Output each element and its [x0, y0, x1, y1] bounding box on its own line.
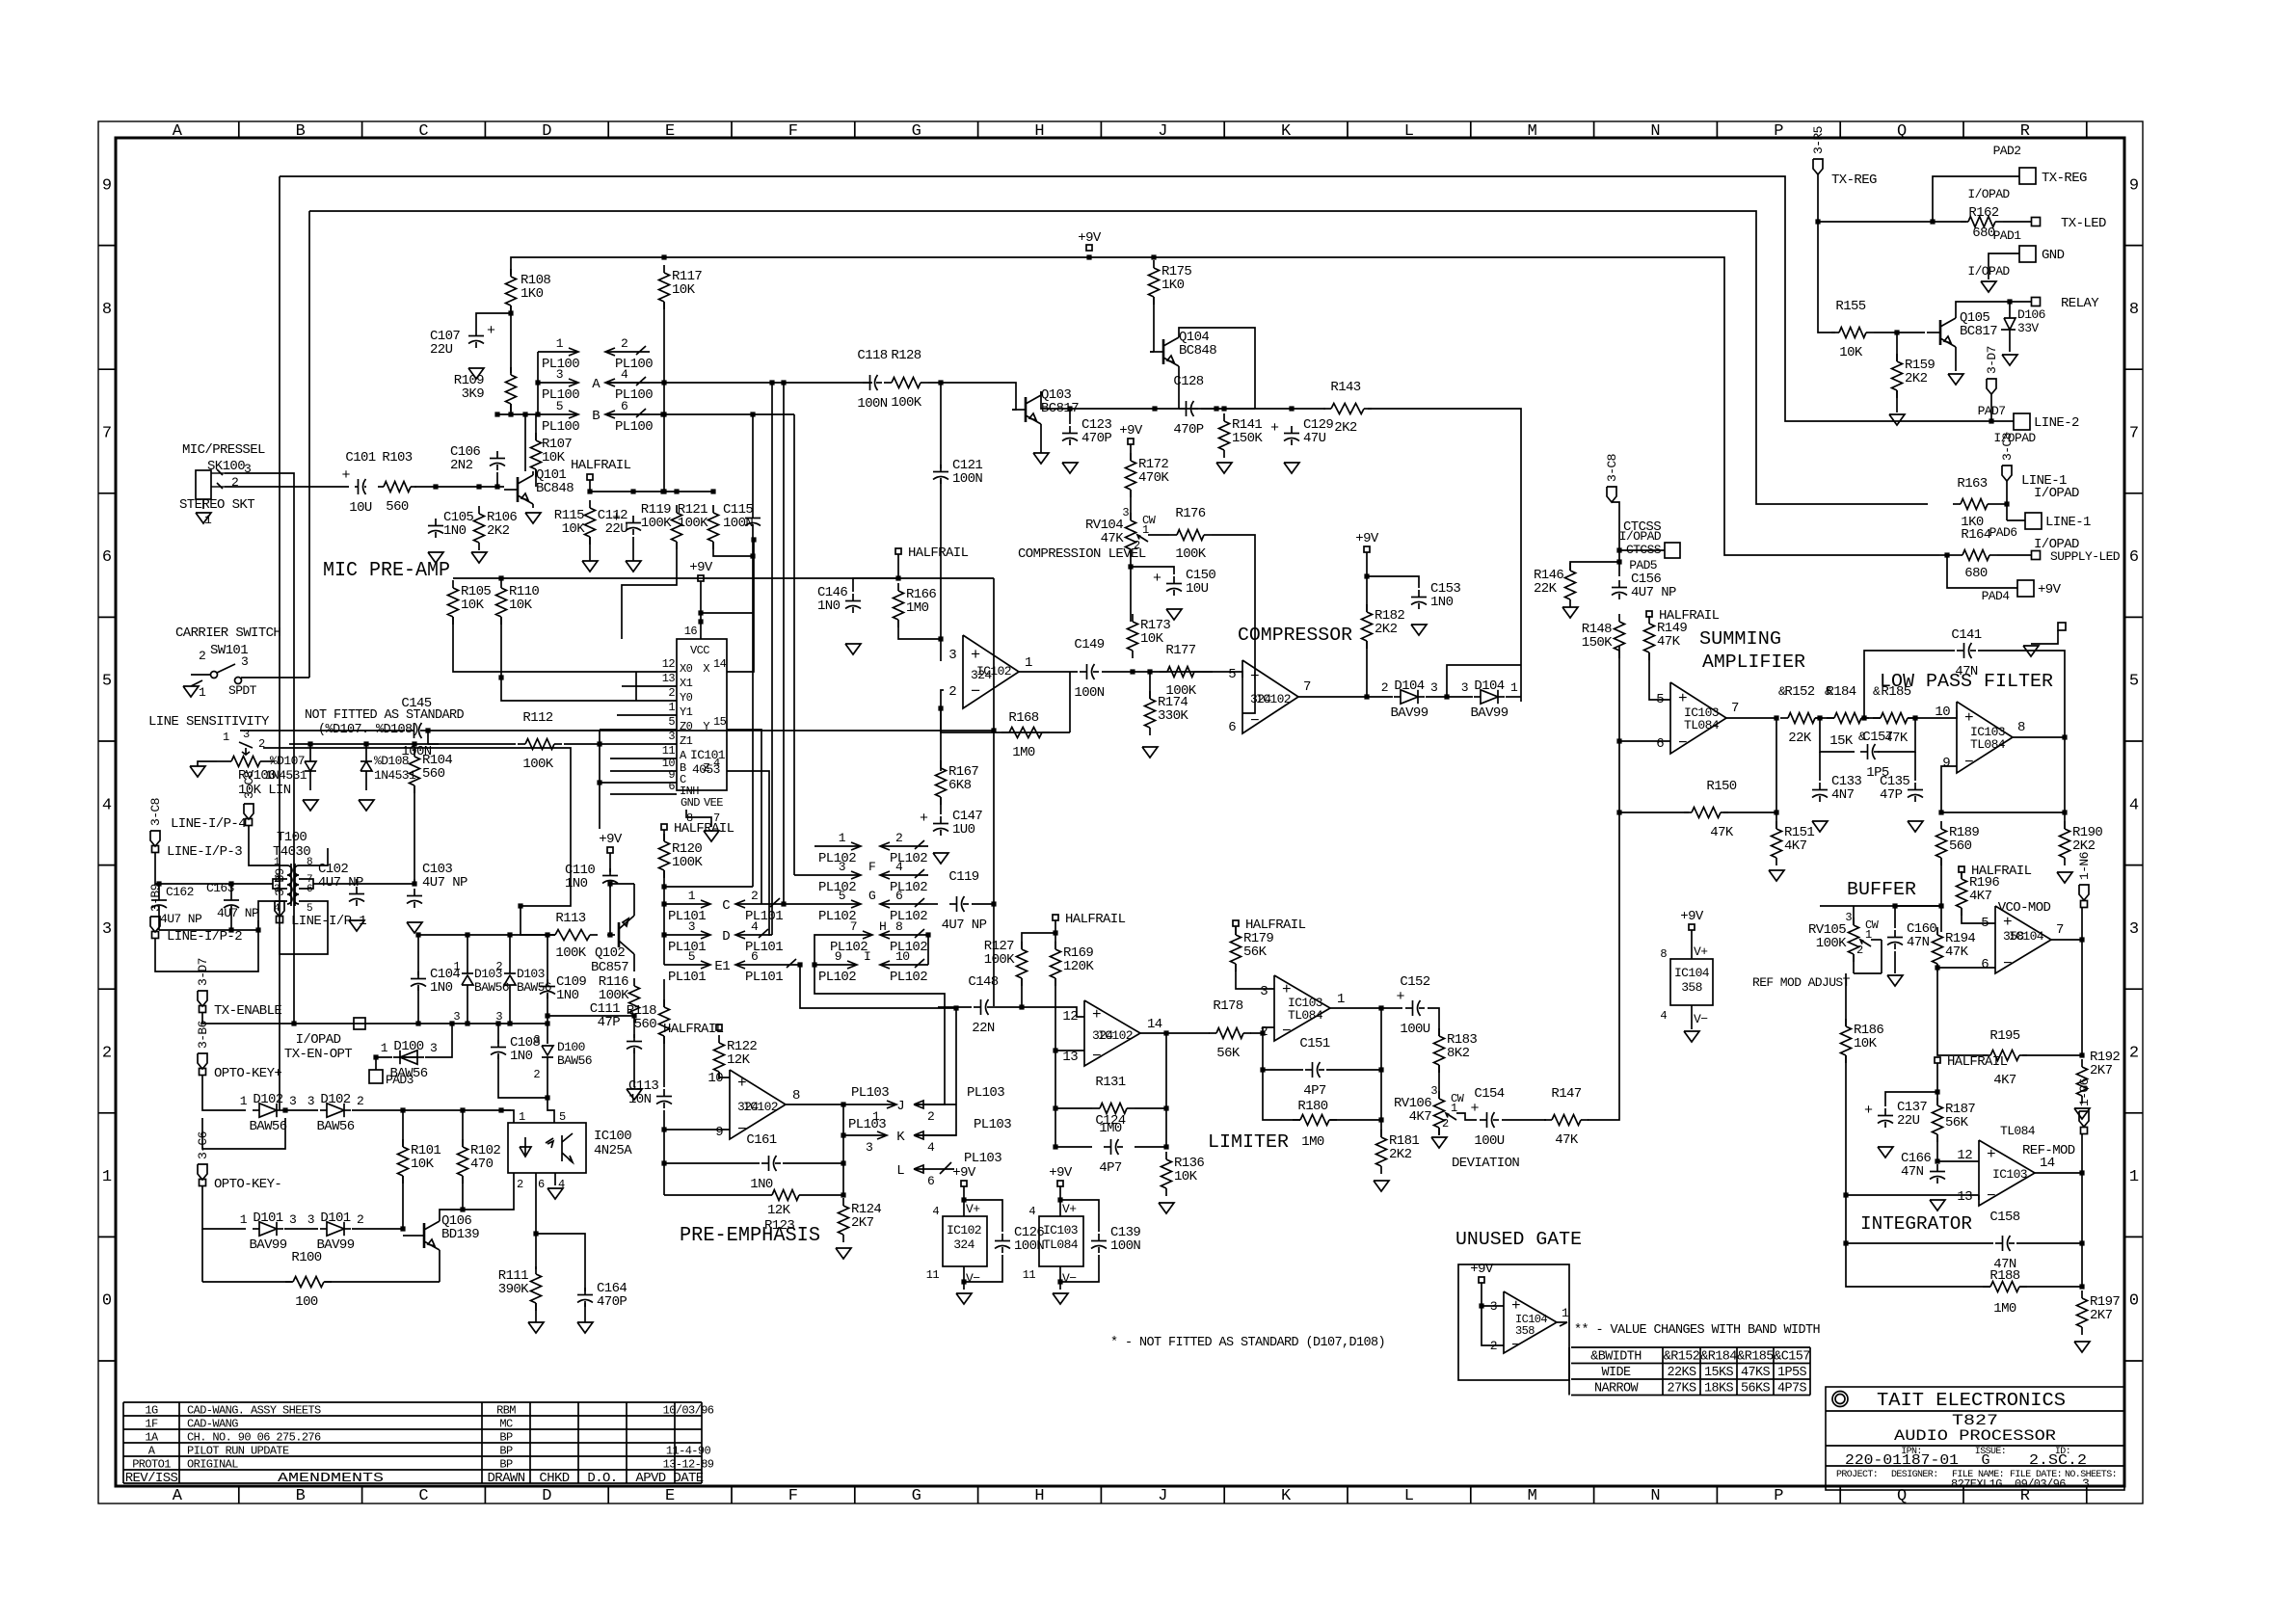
svg-text:VCO-MOD: VCO-MOD — [1998, 900, 2051, 916]
wire c148 left — [938, 1006, 972, 1008]
wire b to 9v jog — [698, 610, 753, 615]
wire r194 top — [1936, 932, 1938, 935]
wire K net — [914, 1008, 956, 1135]
svg-text:1G: 1G — [145, 1404, 158, 1418]
capacitor C121 — [933, 458, 982, 487]
svg-text:R113: R113 — [555, 911, 585, 926]
ground — [1411, 625, 1427, 635]
wire c157 right — [1878, 718, 1915, 752]
wire q105 collector — [1956, 302, 1957, 314]
label G — [868, 889, 875, 903]
svg-text:12: 12 — [1957, 1148, 1972, 1163]
transistor Q102 — [591, 884, 634, 975]
wire R102 top — [462, 1110, 464, 1147]
wire relay wire — [1957, 299, 2031, 304]
wire C110 v — [609, 853, 611, 872]
label REF MOD ADJUST — [1752, 975, 1851, 990]
wire R110 down — [498, 617, 636, 701]
svg-text:D103: D103 — [517, 967, 545, 981]
wire sum out — [1726, 715, 1779, 720]
svg-text:COMPRESSION LEVEL: COMPRESSION LEVEL — [1018, 546, 1146, 562]
resistor R168 — [1001, 710, 1050, 760]
wire C vertical x813 — [783, 383, 785, 904]
wire C107 top — [476, 313, 511, 329]
svg-text:1: 1 — [1562, 1306, 1569, 1320]
ground — [183, 686, 199, 697]
wire c135 top — [1914, 752, 1916, 781]
svg-text:TL084: TL084 — [2000, 1124, 2036, 1138]
svg-text:RBM: RBM — [496, 1404, 516, 1418]
svg-text:−: − — [1511, 1337, 1521, 1354]
resistor R197 — [2077, 1290, 2121, 1335]
wire R105 R110 top — [453, 575, 504, 580]
svg-text:6: 6 — [307, 884, 312, 895]
capacitor C123 — [1062, 417, 1111, 446]
wire c137 branch — [1885, 1092, 1937, 1106]
svg-text:2: 2 — [533, 1068, 540, 1081]
svg-text:470P: 470P — [597, 1294, 627, 1310]
net HALFRAIL q101 — [571, 458, 631, 480]
wire supply stub — [2031, 630, 2058, 644]
svg-text:4: 4 — [621, 367, 628, 382]
op-amp IC102 limiter-in — [1062, 1000, 1161, 1066]
capacitor C124 — [1095, 1113, 1125, 1176]
svg-text:47N: 47N — [1955, 664, 1978, 679]
ground — [577, 1322, 593, 1333]
svg-text:4: 4 — [895, 860, 903, 874]
svg-text:R128: R128 — [891, 348, 921, 363]
svg-text:R103: R103 — [382, 450, 412, 466]
wire r150 right — [1723, 810, 1779, 814]
wire comp1 fb — [938, 690, 1070, 732]
svg-text:7: 7 — [1731, 701, 1739, 716]
diode D102 — [240, 1092, 296, 1134]
svg-text:AMENDMENTS: AMENDMENTS — [278, 1471, 384, 1486]
svg-text:D106: D106 — [2017, 307, 2045, 322]
svg-text:D102: D102 — [253, 1092, 282, 1107]
label CARRIER SWITCH — [175, 625, 280, 641]
svg-text:HALFRAIL: HALFRAIL — [908, 545, 969, 561]
svg-text:47N: 47N — [1907, 935, 1930, 950]
svg-text:100K: 100K — [555, 945, 586, 961]
wire net carrier to LINE-1 — [309, 211, 1928, 504]
svg-text:PL102: PL102 — [818, 880, 856, 895]
connector PL103 pin2 J — [896, 1085, 1004, 1124]
resistor R123 — [664, 1190, 843, 1235]
svg-text:470P: 470P — [1173, 422, 1203, 438]
svg-text:G: G — [1981, 1452, 1989, 1469]
svg-text:56K: 56K — [1243, 945, 1268, 960]
svg-text:+: + — [487, 323, 495, 339]
svg-text:TL084: TL084 — [1684, 718, 1720, 732]
wire q103 emitter gnd — [1040, 428, 1042, 453]
svg-text:TL084: TL084 — [1288, 1008, 1323, 1023]
wire r195 right — [2022, 1054, 2082, 1056]
svg-text:390K: 390K — [498, 1282, 529, 1297]
pad TX-ENABLE — [200, 1003, 282, 1019]
svg-text:I: I — [864, 949, 870, 964]
wire c139 link — [1060, 1200, 1099, 1232]
svg-text:CHKD: CHKD — [539, 1471, 569, 1486]
connector PL102 pin 3 — [814, 860, 861, 895]
wire D vertical x801 — [771, 383, 773, 935]
diode D103b — [495, 935, 551, 1024]
svg-text:2: 2 — [668, 686, 675, 700]
svg-text:10K: 10K — [562, 521, 586, 537]
wire vco out — [2051, 908, 2085, 943]
connector PL103 pin4 K — [896, 1117, 1011, 1155]
svg-text:D102: D102 — [320, 1092, 350, 1107]
svg-text:150K: 150K — [1232, 431, 1263, 446]
svg-text:3: 3 — [307, 1212, 314, 1227]
wire lpf out v — [2064, 737, 2066, 829]
wire T100 right out — [313, 883, 414, 885]
svg-text:PL101: PL101 — [668, 940, 706, 955]
svg-text:1P5S: 1P5S — [1777, 1366, 1807, 1380]
ground — [547, 1188, 563, 1199]
svg-text:5: 5 — [1656, 692, 1664, 707]
svg-text:B: B — [592, 409, 600, 424]
svg-text:+9V: +9V — [599, 832, 623, 847]
svg-text:C161: C161 — [746, 1132, 776, 1148]
svg-text:G: G — [868, 889, 875, 903]
svg-text:1N0: 1N0 — [510, 1049, 533, 1064]
svg-text:&C157: &C157 — [1774, 1350, 1810, 1365]
svg-text:R152: R152 — [1784, 684, 1814, 700]
svg-text:3-D7: 3-D7 — [1985, 346, 1999, 374]
svg-text:P: P — [1774, 122, 1783, 141]
svg-text:0: 0 — [2129, 1292, 2139, 1311]
row number strip — [98, 176, 2143, 1361]
op-amp IC102 comp2 — [1228, 660, 1311, 735]
resistor R147 — [1544, 1086, 1589, 1148]
flag 3-C8 — [1605, 454, 1619, 502]
svg-text:2: 2 — [495, 960, 502, 973]
wire int in13b — [1978, 1195, 1980, 1200]
svg-text:PROJECT:: PROJECT: — [1836, 1470, 1878, 1480]
svg-text:−: − — [1964, 754, 1974, 771]
wire r176 right — [1212, 535, 1255, 713]
wire r186 top — [1845, 973, 1847, 1026]
svg-text:2: 2 — [751, 889, 758, 903]
wire lpf out — [1908, 710, 1957, 721]
svg-text:10K: 10K — [461, 598, 485, 613]
power +9V — [1355, 531, 1379, 552]
svg-text:PL102: PL102 — [890, 970, 927, 985]
wire IC101 pin left 3 — [636, 714, 677, 716]
ground — [1948, 374, 1963, 385]
label CTCSS — [1623, 519, 1661, 535]
svg-text:100K: 100K — [891, 395, 921, 411]
wire B rail — [605, 412, 794, 416]
pad PAD7 LINE-2 — [1978, 404, 2079, 445]
wire R182 bot — [1366, 641, 1368, 697]
capacitor C103 — [407, 862, 467, 908]
pad PAD2 TX-REG — [1967, 144, 2087, 201]
svg-text:5: 5 — [102, 673, 112, 691]
wire R105 down — [453, 617, 636, 672]
wire c160 top — [1892, 903, 1941, 928]
svg-text:PL100: PL100 — [615, 419, 653, 435]
svg-text:HALFRAIL: HALFRAIL — [1065, 912, 1126, 927]
wire r149 to pin5 — [1649, 652, 1670, 700]
svg-text:BC817: BC817 — [1960, 324, 1997, 339]
resistor R136 — [1161, 1152, 1205, 1196]
wire C110 bot — [607, 881, 612, 937]
resistor R149 — [1644, 616, 1688, 660]
wire q105 emitter — [1955, 351, 1957, 371]
wire IC100 pin6 — [533, 1173, 538, 1269]
wire C119 right — [972, 903, 994, 905]
wire T100 pin4 — [258, 901, 287, 930]
svg-text:2K2: 2K2 — [1334, 420, 1357, 436]
ground — [525, 513, 541, 523]
wire r196 lead — [1961, 872, 1962, 879]
label VCO-MOD — [1998, 900, 2051, 916]
fix &r152 — [1778, 684, 1786, 699]
svg-text:14: 14 — [1147, 1017, 1162, 1032]
svg-text:+9V: +9V — [1049, 1165, 1073, 1181]
wire lim2 out — [1330, 1005, 1402, 1010]
net HALFRAIL — [1935, 1054, 2008, 1070]
svg-text:R164: R164 — [1961, 527, 1990, 543]
svg-text:3: 3 — [2129, 920, 2139, 939]
svg-text:100N: 100N — [1110, 1238, 1140, 1254]
connector PL103 pin6 L — [896, 1151, 1001, 1188]
svg-text:9: 9 — [102, 176, 112, 195]
svg-text:7: 7 — [1303, 679, 1311, 695]
wire R108-R109 — [508, 306, 513, 373]
wire R120 bottom — [661, 870, 666, 965]
transistor Q101 — [504, 467, 574, 508]
svg-text:C119: C119 — [948, 869, 978, 885]
svg-text:PL103: PL103 — [974, 1117, 1011, 1132]
svg-text:2K7: 2K7 — [2090, 1063, 2113, 1078]
svg-text:&: & — [1778, 684, 1786, 699]
resistor R148 — [1582, 614, 1625, 658]
svg-text:3-D7: 3-D7 — [196, 958, 210, 986]
svg-text:6K8: 6K8 — [948, 778, 972, 793]
wire R112 right — [564, 743, 600, 745]
svg-text:HALFRAIL: HALFRAIL — [663, 1022, 724, 1037]
svg-text:R155: R155 — [1835, 299, 1865, 314]
svg-text:V−: V− — [1694, 1012, 1708, 1026]
power +9V — [689, 560, 713, 581]
svg-text:7: 7 — [2056, 922, 2064, 938]
wire Q106 collector — [440, 1207, 466, 1217]
svg-text:100K: 100K — [672, 855, 703, 870]
ground — [2002, 355, 2017, 365]
svg-text:BD139: BD139 — [441, 1227, 479, 1242]
svg-text:9: 9 — [2129, 176, 2139, 195]
resistor R141 — [1219, 413, 1264, 458]
wire r186 bot — [1843, 1055, 1848, 1246]
wire c139 bot — [1060, 1255, 1099, 1282]
connector PL101 pin 6 — [714, 949, 800, 985]
connector PL101 pin 1 — [664, 889, 710, 924]
wire C149 right — [1102, 669, 1213, 674]
capacitor C158 — [1989, 1210, 2019, 1272]
connector PL102 pin 10 — [880, 949, 928, 985]
net HALFRAIL — [1646, 608, 1720, 624]
connector PL103 pin1 — [851, 1085, 896, 1124]
wire r159 top — [1896, 333, 1898, 361]
wire R117 bottom — [661, 302, 666, 494]
connector PL100 pin 4 — [592, 367, 653, 403]
svg-text:STEREO SKT: STEREO SKT — [179, 497, 254, 513]
svg-text:C101: C101 — [345, 450, 375, 466]
svg-text:LIMITER: LIMITER — [1208, 1131, 1289, 1153]
svg-text:D104: D104 — [1394, 678, 1424, 694]
label COMPRESSION LEVEL — [1018, 546, 1146, 562]
connector PL100 pin 6 — [592, 399, 653, 435]
wire R116 jog — [545, 1013, 634, 1018]
flag 3-D7 — [196, 958, 210, 1006]
wire diode rail top — [415, 932, 555, 937]
svg-text:22U: 22U — [1897, 1113, 1920, 1129]
svg-text:−: − — [1282, 1023, 1292, 1040]
svg-text:5: 5 — [2129, 673, 2139, 691]
title MIC PRE-AMP — [323, 560, 450, 582]
svg-text:BAW56: BAW56 — [316, 1119, 354, 1134]
connector PL102 pin 4 — [880, 860, 928, 895]
wire SW101 to x321 — [241, 677, 309, 678]
svg-text:4: 4 — [1028, 1205, 1035, 1218]
svg-text:OPTO-KEY-: OPTO-KEY- — [214, 1177, 281, 1192]
svg-text:Q: Q — [1897, 122, 1907, 141]
wire d101 mid — [284, 1228, 318, 1230]
svg-text:F: F — [788, 122, 798, 141]
svg-text:+9V: +9V — [1078, 230, 1102, 246]
svg-text:VCC: VCC — [690, 644, 709, 657]
svg-text:10K: 10K — [411, 1157, 435, 1172]
capacitor C133 — [1812, 774, 1861, 803]
svg-text:2: 2 — [199, 649, 205, 663]
pad LINE-I/P-4 — [171, 816, 253, 832]
svg-text:C124: C124 — [1095, 1113, 1125, 1129]
svg-text:BAW56: BAW56 — [474, 980, 509, 995]
wire mic node — [414, 484, 504, 489]
svg-text:220-01187-01: 220-01187-01 — [1845, 1452, 1959, 1469]
net HALFRAIL — [1233, 918, 1306, 933]
svg-text:K: K — [1281, 1487, 1292, 1505]
svg-text:&: & — [1873, 684, 1881, 699]
wire d102 out — [352, 1107, 511, 1112]
svg-text:358: 358 — [1515, 1324, 1535, 1338]
title LIMITER — [1208, 1131, 1289, 1153]
svg-text:11: 11 — [662, 744, 676, 758]
transistor Q106 — [411, 1213, 479, 1254]
svg-text:4U7 NP: 4U7 NP — [1631, 585, 1676, 600]
column letter strip — [173, 121, 2087, 1505]
ground — [2057, 872, 2072, 883]
wire +9V rail — [511, 254, 1939, 555]
svg-text:6: 6 — [751, 949, 758, 964]
svg-text:+: + — [341, 467, 350, 484]
fix &c157 — [1858, 730, 1866, 744]
svg-text:H: H — [1034, 1487, 1044, 1505]
svg-text:TL084: TL084 — [1043, 1237, 1079, 1252]
svg-text:4: 4 — [751, 919, 759, 934]
svg-text:5: 5 — [839, 889, 845, 903]
resistor R113 — [547, 911, 598, 961]
ic IC100 4N25A — [508, 1110, 632, 1191]
wire pad3 wire — [373, 1054, 392, 1070]
op-amp IC103 limiter — [1260, 975, 1345, 1041]
svg-text:&: & — [1825, 684, 1832, 699]
svg-text:X: X — [703, 662, 709, 676]
ground — [1142, 747, 1158, 758]
pad OPTO-KEY+ — [200, 1066, 282, 1081]
svg-text:LINE-I/P-1: LINE-I/P-1 — [291, 914, 366, 929]
svg-text:E: E — [665, 1487, 675, 1505]
wire halfrail r166 — [853, 554, 901, 592]
wire IC101 pin left 4 — [636, 729, 677, 731]
capacitor C110 — [565, 863, 618, 891]
resistor R115 — [554, 500, 596, 545]
wire c112 g — [632, 537, 634, 561]
capacitor C156 — [1612, 572, 1676, 600]
svg-text:15: 15 — [713, 715, 727, 729]
label LINE-1 — [2021, 473, 2067, 489]
wire IC101 x1 — [622, 685, 636, 687]
connector PL100 pin 1 — [538, 336, 579, 372]
svg-text:* - NOT FITTED AS STANDARD (D1: * - NOT FITTED AS STANDARD (D107,D108) — [1110, 1336, 1385, 1350]
wire c151 left — [1260, 1033, 1303, 1073]
svg-text:C141: C141 — [1951, 627, 1981, 643]
wire buffer top rail — [1820, 903, 1944, 908]
wire r147 right — [1588, 812, 1619, 1120]
ground — [1431, 1137, 1447, 1148]
svg-text:+9V: +9V — [689, 560, 713, 575]
capacitor C162 — [151, 884, 202, 930]
wire ctcss down2 — [1612, 502, 1622, 576]
diode D103a — [453, 935, 509, 1024]
svg-text:10K: 10K — [542, 450, 566, 466]
amendments table — [123, 1402, 714, 1486]
wire z bus vertical — [599, 730, 601, 829]
connector PL102 pin 8 — [880, 919, 928, 955]
resistor R195 — [1983, 1028, 2027, 1088]
wire r167 v — [940, 708, 942, 771]
resistor R190 — [2060, 821, 2103, 865]
svg-text:560: 560 — [634, 1017, 657, 1032]
ground — [471, 552, 487, 563]
connector PL101 pin 3 — [664, 919, 710, 955]
svg-text:TX-LED: TX-LED — [2061, 216, 2106, 231]
svg-text:47N: 47N — [1901, 1164, 1924, 1180]
pad TX-EN-OPT — [284, 1018, 414, 1087]
wire r172-rv104 — [1130, 490, 1132, 520]
resistor R103 — [378, 450, 416, 515]
capacitor C139 — [1091, 1225, 1140, 1254]
wire r178 out — [1250, 1027, 1274, 1036]
diode D106 zener — [2001, 302, 2045, 352]
wire d104 out — [1506, 696, 1521, 698]
resistor R107 — [531, 433, 573, 477]
resistor R175 — [1149, 260, 1192, 305]
label TX-REG2 — [1831, 173, 1877, 188]
svg-text:IC102: IC102 — [947, 1223, 981, 1237]
svg-text:RELAY: RELAY — [2061, 296, 2099, 311]
svg-text:3: 3 — [556, 367, 563, 382]
svg-text:+9V: +9V — [1355, 531, 1379, 546]
wire halfrail row — [587, 480, 715, 494]
flag 3-C8 — [2000, 433, 2015, 481]
svg-text:1: 1 — [668, 701, 675, 714]
wire C106 bottom — [496, 472, 498, 487]
svg-text:A: A — [173, 122, 183, 141]
